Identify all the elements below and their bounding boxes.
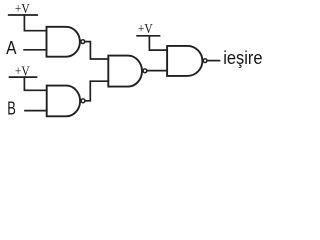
wire input B to gate U2 input 2 xyxy=(25,110,47,112)
NAND gate U3 output bubble xyxy=(143,69,147,73)
wire U2 output to U3 input 2 xyxy=(86,81,109,101)
wire +V1 to gate U1 input 1 xyxy=(24,15,46,31)
svg-text:+V: +V xyxy=(15,64,30,79)
power +V (mid-left) bar xyxy=(10,76,37,78)
power +V (top-middle) bar xyxy=(137,35,159,37)
wire U1 output to U3 input 1 xyxy=(85,42,108,59)
wire +V2 to gate U2 input 1 xyxy=(24,77,46,90)
wire +V3 to gate U4 input 1 xyxy=(149,36,167,50)
NAND gate U1 body xyxy=(47,27,80,57)
wire U3 output to U4 input 2 xyxy=(148,70,168,72)
svg-text:+V: +V xyxy=(138,22,153,37)
svg-text:+V: +V xyxy=(15,2,30,17)
NAND gate U4 output bubble xyxy=(203,59,207,63)
NAND gate U1 output bubble xyxy=(81,40,85,44)
wire input A to gate U1 input 2 xyxy=(24,49,46,51)
NAND gate U2 body xyxy=(47,86,80,117)
NAND gate U3 body xyxy=(108,56,142,87)
wire U4 output to label iesire xyxy=(208,60,220,62)
svg-text:B: B xyxy=(7,99,16,119)
NAND gate U2 output bubble xyxy=(81,99,85,103)
NAND gate U4 body xyxy=(167,46,202,76)
power +V (top-left) bar xyxy=(9,14,38,16)
svg-text:A: A xyxy=(6,38,16,58)
svg-text:ieşire: ieşire xyxy=(223,48,262,68)
